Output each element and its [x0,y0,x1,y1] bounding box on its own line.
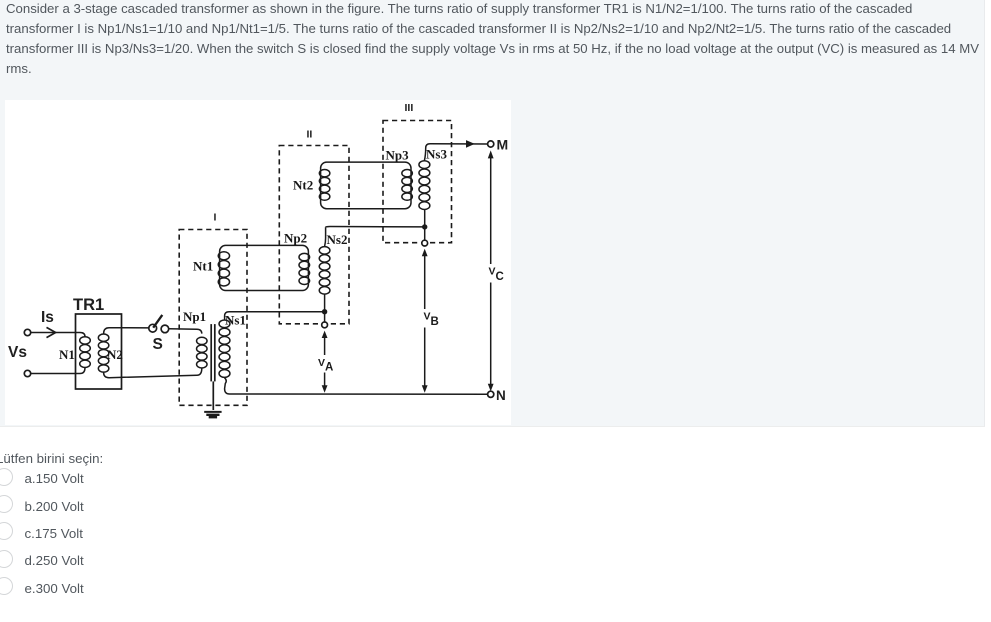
wire Vs top to N1 [31,333,85,337]
wire node A to VA terminal [324,312,326,322]
wire Vs bottom to N1 [31,368,85,374]
svg-text:III: III [405,102,414,114]
svg-text:I: I [214,212,217,224]
dashed box stage I [179,230,247,406]
wire Np1 bottom corner [197,368,202,375]
wire Ns1 bottom to bottom bus [225,378,230,394]
arrow VB upper [422,249,428,309]
node Vs bottom terminal [24,370,30,376]
core of transformer I [211,324,215,381]
arrow VB lower [422,328,428,393]
switch S lever [153,315,162,328]
svg-text:Ns2: Ns2 [327,232,348,247]
wire Ns3 top to M [424,144,487,161]
svg-text:A: A [325,362,333,374]
svg-text:S: S [153,336,163,353]
svg-text:Np3: Np3 [386,148,410,163]
svg-text:N: N [496,388,506,403]
node A open terminal [322,322,328,328]
svg-text:Np1: Np1 [183,309,206,324]
label VC [487,266,504,284]
svg-text:V: V [424,311,431,323]
svg-text:V: V [489,266,496,278]
arrow VA upper [322,331,328,355]
svg-text:Is: Is [41,309,54,326]
svg-text:Nt2: Nt2 [293,178,313,193]
wire Ns2 top to stage III junction [326,226,425,229]
wire Ns1 top to node A bus [225,312,322,320]
node N terminal [488,391,494,397]
figure white background [5,100,511,425]
winding Ns2 [319,247,330,295]
winding Nt2 [319,170,330,201]
svg-text:Ns3: Ns3 [426,147,447,162]
transformer TR1 box [76,314,122,389]
current arrow Is [47,327,56,337]
winding Nt1 [218,252,229,286]
arrow VA lower [322,373,328,393]
dashed box stage III [383,121,452,243]
label VB [421,311,439,329]
switch S contact [161,325,169,333]
svg-text:C: C [496,271,504,283]
bottom bus wire [230,393,488,395]
arrow VC lower [488,283,494,392]
svg-text:N2: N2 [107,347,123,362]
wire switch to Np1 top [169,329,202,334]
winding N2 [98,334,109,372]
junction node B [422,224,427,229]
wire N2 bottom to Np1 bottom [104,372,197,377]
svg-text:M: M [497,137,509,153]
winding Ns1 [219,320,230,377]
junction node A [322,309,327,314]
winding N1 [80,337,91,368]
winding Ns3 [419,161,430,210]
svg-text:Vs: Vs [8,344,27,361]
svg-text:TR1: TR1 [73,296,104,314]
ground [204,381,221,417]
winding Np1 [197,337,208,368]
arrowhead on M wire [466,140,475,148]
svg-text:II: II [307,129,313,141]
svg-text:B: B [431,316,439,328]
node M terminal [488,141,494,147]
svg-text:Np2: Np2 [284,231,307,246]
wire Ns3 bottom to junction [424,210,426,241]
svg-text:Ns1: Ns1 [225,313,246,328]
svg-text:V: V [318,357,325,369]
wire N2 top to switch [104,328,150,334]
label VA [317,357,334,374]
transformer link loop Nt2-Np3 [321,162,411,209]
wire Ns2 bottom to node A [324,294,326,311]
wire Ns2 top riser [325,227,326,246]
node B open terminal [422,240,428,246]
winding Np3 [402,170,413,201]
node Vs top terminal [24,329,30,335]
svg-text:Nt1: Nt1 [193,259,213,274]
arrow VC upper [488,150,494,264]
winding Np2 [299,253,310,284]
transformer link loop Nt1-Np2 [220,245,309,290]
svg-text:N1: N1 [59,347,75,362]
dashed box stage II [279,146,349,324]
switch S pivot [149,324,157,332]
